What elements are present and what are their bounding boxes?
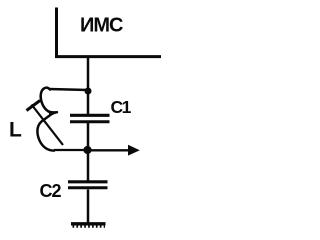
IC box U1 (ИМС), cropped at top/right [55, 8, 161, 57]
capacitor C2 bottom plate [68, 186, 108, 189]
wire: node A to inductor top [49, 89, 88, 90]
wire: IC pin down to node A [87, 57, 90, 115]
coil cusp tick [49, 110, 58, 116]
capacitor C2 top plate [68, 180, 108, 183]
capacitor C1 top plate [70, 114, 110, 117]
inductor adjustable-core arrow (diagonal) [32, 105, 64, 146]
svg-text:ИМС: ИМС [80, 15, 123, 37]
wire: C1 bottom to node B to C2 top [87, 123, 90, 181]
wire: inductor bottom to node B [54, 149, 88, 151]
inductor L coil [37, 88, 57, 151]
wire: C2 bottom to ground [87, 190, 90, 223]
output wire [88, 149, 129, 151]
svg-text:C1: C1 [111, 97, 132, 117]
node A junction [85, 88, 92, 95]
svg-text:L: L [9, 119, 22, 142]
svg-text:C2: C2 [40, 181, 62, 201]
ground bar [71, 222, 106, 225]
output arrowhead [128, 145, 140, 156]
ground hatching [73, 225, 106, 227]
capacitor C1 bottom plate [70, 120, 110, 123]
node B junction [83, 146, 91, 154]
adjustable-core T-bar [27, 101, 41, 111]
